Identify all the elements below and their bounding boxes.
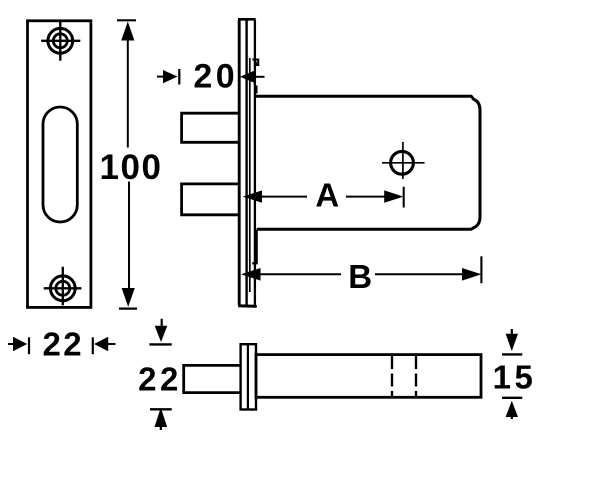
dimension 20 xyxy=(157,69,265,85)
bolt shaft xyxy=(184,365,241,392)
faceplate outline xyxy=(28,21,91,308)
svg-text:B: B xyxy=(348,258,372,295)
dimension 15 arrows xyxy=(502,329,522,419)
bolt barrel xyxy=(256,355,481,398)
svg-text:22: 22 xyxy=(138,360,182,397)
slot xyxy=(43,107,77,222)
bolt collar xyxy=(241,344,256,409)
dimension 22 collar arrows xyxy=(149,319,171,430)
svg-text:100: 100 xyxy=(100,148,163,187)
case bottom tab xyxy=(252,230,257,264)
edge view plates xyxy=(238,19,257,306)
hidden line 2 xyxy=(415,356,417,397)
dimension 100 line xyxy=(117,20,137,308)
svg-text:20: 20 xyxy=(193,58,238,96)
dimension B line xyxy=(241,256,482,283)
dimension 22 faceplate xyxy=(8,337,116,354)
bolt tab lower xyxy=(182,184,239,215)
screw hole top xyxy=(41,22,80,61)
hidden line 1 xyxy=(391,356,393,397)
screw hole bottom xyxy=(44,267,82,305)
svg-text:A: A xyxy=(315,177,339,214)
lock body outline xyxy=(255,96,480,229)
svg-text:15: 15 xyxy=(493,358,537,395)
case top hook xyxy=(252,60,258,65)
case front stub xyxy=(255,86,257,94)
svg-text:22: 22 xyxy=(42,325,84,362)
spindle hole xyxy=(382,142,425,179)
bolt tab upper xyxy=(182,113,239,142)
dimension A line xyxy=(243,187,404,208)
